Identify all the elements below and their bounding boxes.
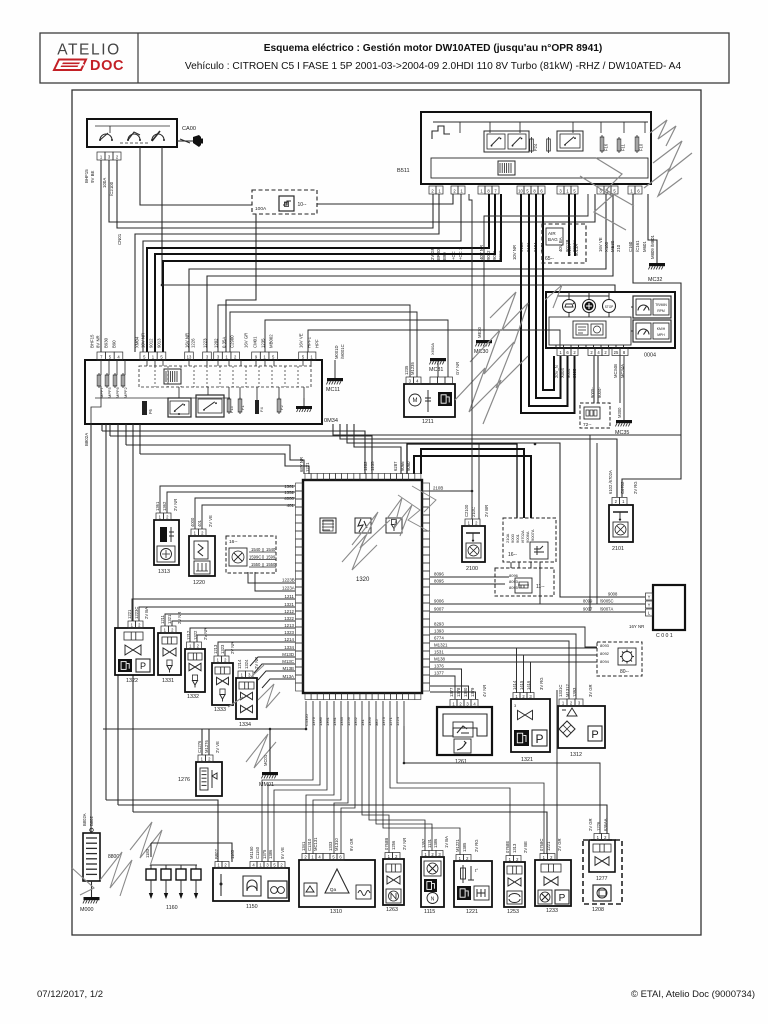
svg-text:9012: 9012 (149, 338, 154, 348)
svg-text:1416: 1416 (526, 680, 531, 690)
svg-text:ME30: ME30 (477, 326, 482, 338)
tachometer gauge (633, 296, 671, 318)
connector row 1310 (302, 854, 344, 861)
svg-text:F2: F2 (279, 405, 284, 410)
ECU bottom wire drops (304, 701, 400, 726)
ECU icon connector (320, 518, 336, 533)
svg-text:0004: 0004 (644, 353, 656, 359)
svg-text:1202: 1202 (363, 461, 368, 471)
svg-text:MC34B: MC34B (613, 364, 618, 378)
svg-text:F16: F16 (604, 143, 609, 151)
svg-text:1320: 1320 (356, 577, 370, 583)
svg-text:1312: 1312 (570, 752, 582, 758)
svg-text:8096: 8096 (434, 572, 444, 577)
fuel filter heater 1313 (154, 520, 179, 575)
maxi fuse MPF2 (121, 373, 128, 398)
svg-text:65--: 65-- (545, 256, 554, 262)
svg-text:4000: 4000 (190, 517, 195, 527)
svg-text:16V VE: 16V VE (598, 237, 603, 252)
svg-text:2V BR: 2V BR (484, 505, 489, 517)
turbo pressure solenoid 1233 (535, 860, 571, 914)
svg-text:1356: 1356 (367, 716, 372, 726)
svg-text:8V NR: 8V NR (96, 335, 101, 348)
connector 2100 (464, 504, 489, 526)
dashed box 80 gearbox (597, 642, 642, 676)
svg-text:ATELIO: ATELIO (57, 42, 121, 59)
svg-text:MC131: MC131 (313, 837, 318, 851)
relay R1 in B511 (484, 131, 529, 152)
wires 9006 9007 to C001 (430, 592, 645, 613)
oil pressure warning lamp (563, 300, 576, 313)
svg-text:MC32: MC32 (648, 277, 662, 283)
svg-text:2V NR: 2V NR (203, 628, 208, 640)
svg-text:1414: 1414 (512, 680, 517, 690)
svg-text:1221: 1221 (305, 462, 310, 472)
svg-text:1321: 1321 (167, 614, 172, 624)
svg-text:MPF6: MPF6 (115, 387, 120, 398)
wire labels below B511 (430, 237, 647, 260)
svg-text:1341: 1341 (301, 841, 306, 851)
svg-text:Esquema eléctrico : Gestión mo: Esquema eléctrico : Gestión motor DW10AT… (264, 43, 603, 54)
svg-text:100A: 100A (255, 206, 267, 212)
wires ECU to box 11 (430, 572, 509, 585)
svg-text:1211: 1211 (422, 419, 434, 425)
svg-text:XM04: XM04 (135, 336, 140, 348)
wire B930 bus (109, 160, 595, 222)
svg-text:10V NR: 10V NR (512, 245, 517, 260)
svg-text:1256: 1256 (346, 716, 351, 726)
relay R2 in B511 (557, 131, 583, 151)
svg-text:8093: 8093 (509, 579, 519, 584)
svg-text:10--: 10-- (298, 202, 307, 208)
wire 9012 heavy feed (147, 194, 489, 352)
svg-text:9006: 9006 (434, 599, 444, 604)
clutch pedal switch 1321 (511, 699, 550, 763)
svg-text:1331: 1331 (332, 716, 337, 726)
svg-text:2V BE: 2V BE (523, 841, 528, 853)
svg-text:1224: 1224 (395, 716, 400, 726)
svg-text:1599C: 1599C (249, 555, 261, 560)
svg-text:9007: 9007 (434, 607, 444, 612)
EGR solenoid 1263 (383, 859, 404, 913)
svg-text:1223A: 1223A (282, 586, 295, 591)
diagnostic warning lamp (583, 300, 596, 313)
svg-text:100A: 100A (102, 178, 107, 188)
wire 1276 feeds (202, 729, 209, 755)
svg-text:Qa: Qa (330, 887, 337, 893)
maxi fuse MPF7 (97, 373, 104, 398)
bus B802 to 1150 (106, 800, 218, 862)
wire riser to cooling box (198, 381, 200, 530)
ignition key symbol (177, 135, 203, 147)
accelerator pedal sensor 1261 (437, 707, 492, 765)
svg-text:C160: C160 (628, 241, 633, 252)
svg-text:BHF15: BHF15 (90, 334, 95, 348)
svg-text:1361: 1361 (284, 484, 294, 489)
svg-text:1214: 1214 (237, 659, 242, 669)
svg-text:2V NR: 2V NR (402, 838, 407, 850)
svg-text:72--: 72-- (583, 422, 592, 428)
svg-text:1261: 1261 (455, 759, 467, 765)
svg-text:1310: 1310 (330, 909, 342, 915)
svg-text:9V GR: 9V GR (349, 838, 354, 851)
svg-text:13: 13 (187, 354, 192, 359)
wire 0M34 to ECU 3 (126, 424, 304, 474)
connector 1313 (155, 499, 178, 520)
wire ECU to connector 16 medium (407, 444, 517, 518)
svg-text:210B: 210B (433, 486, 443, 491)
wire 1211 labels (404, 362, 460, 375)
svg-text:MPF5: MPF5 (107, 387, 112, 398)
ground MC35 (615, 407, 632, 436)
wire 6702A branch down (590, 435, 597, 611)
wire 1211 to MC31 (437, 361, 439, 377)
svg-text:16--: 16-- (508, 552, 517, 558)
pencil marks bottom left (72, 822, 162, 896)
svg-text:1323: 1323 (220, 644, 225, 654)
ground MC30 (474, 194, 588, 355)
svg-text:1321: 1321 (284, 602, 294, 607)
wire 2100 riser (466, 444, 468, 519)
wire M601 to ground (648, 194, 657, 263)
svg-text:1V BA: 1V BA (444, 836, 449, 848)
footer date (37, 989, 103, 1000)
svg-text:210: 210 (616, 244, 621, 252)
svg-text:07/12/2017, 1/2: 07/12/2017, 1/2 (37, 989, 103, 1000)
wire fuse output to 0M34 (226, 214, 256, 352)
svg-text:N: N (431, 897, 435, 903)
svg-text:/M001C: /M001C (340, 344, 345, 359)
svg-text:1223: 1223 (203, 338, 208, 348)
wires cooling box to ECU (248, 572, 295, 591)
wire fan 0M34 to 2101 A (333, 424, 681, 435)
svg-text:M809 /M801: M809 /M801 (650, 235, 655, 259)
svg-text:F10: F10 (639, 143, 644, 151)
bus to 1221 heater (92, 820, 468, 855)
fuse F11 (617, 137, 625, 153)
svg-text:t°: t° (475, 868, 478, 873)
wire MPF2 output down (132, 424, 134, 812)
svg-text:STOP: STOP (605, 305, 614, 309)
ground inside 0M34 (296, 398, 312, 412)
wire B511 to sensor 2100 (469, 194, 472, 491)
relay in 0M34 left (168, 398, 191, 417)
Atelio Doc logo (54, 42, 124, 75)
connector rows above 0M34 (97, 352, 316, 360)
ground MC31 (429, 343, 446, 373)
connector 1333 (213, 642, 235, 663)
pencil annotation on ECU (342, 486, 436, 570)
wire labels at ECU top (299, 457, 411, 472)
engine fuse box B511 (397, 112, 651, 184)
svg-text:C2100: C2100 (464, 504, 469, 517)
pre/post heating unit 1522 (115, 628, 154, 684)
wire BR20 feed (135, 194, 439, 352)
staircase wires to bottom row (262, 726, 544, 862)
svg-text:1271: 1271 (388, 716, 393, 726)
fuse F24 (530, 137, 538, 153)
bus to 1277 from ECU right (404, 690, 600, 860)
svg-text:1115: 1115 (424, 909, 435, 915)
svg-text:9013: 9013 (157, 338, 162, 348)
svg-text:9007A: 9007A (530, 529, 535, 541)
svg-text:1183: 1183 (230, 849, 235, 859)
wire 8293 to box 80 (430, 622, 597, 648)
svg-text:BHF15: BHF15 (84, 169, 89, 183)
svg-text:1321: 1321 (521, 757, 533, 763)
wire C160 to MC32 (622, 194, 681, 497)
schema title text (185, 43, 682, 72)
svg-text:DOC: DOC (90, 58, 124, 74)
contact block 0M34 (164, 369, 181, 384)
wire fan 0M34 to ECU pins (354, 424, 401, 474)
connector 1261 (449, 685, 487, 707)
wire 9011 heavy feed (155, 194, 495, 352)
wire 0M34 to ECU 1 (102, 424, 365, 474)
svg-text:Y: Y (648, 602, 651, 607)
cluster internal wiring (556, 292, 633, 348)
connector 1220 (190, 515, 213, 536)
connector 1253 (505, 841, 528, 863)
svg-text:BAG: BAG (548, 237, 558, 242)
svg-text:1386: 1386 (433, 838, 438, 848)
wire 1376 to 1261 (430, 664, 462, 700)
svg-text:385: 385 (374, 719, 379, 726)
svg-text:1211: 1211 (285, 594, 295, 599)
fuel heater relay 1276 (178, 762, 222, 796)
svg-text:P: P (535, 732, 543, 746)
wire ECU to connector 16 heavy B (414, 456, 531, 518)
svg-text:GY NR: GY NR (455, 362, 460, 375)
svg-text:B802: B802 (89, 816, 94, 826)
svg-text:20V_N: 20V_N (554, 365, 559, 378)
connector 1276 (197, 740, 220, 762)
svg-text:F6: F6 (148, 408, 153, 414)
svg-text:Y: Y (648, 594, 651, 599)
connector C2100 pins 1 3 2 (84, 152, 122, 245)
wire labels 1310 (301, 837, 354, 851)
svg-text:AIR: AIR (548, 231, 556, 236)
svg-text:1212: 1212 (284, 609, 294, 614)
connector 1331 (160, 612, 182, 633)
svg-text:M1312: M1312 (565, 684, 570, 697)
svg-text:2V GR: 2V GR (588, 818, 593, 831)
svg-text:1386: 1386 (268, 849, 273, 859)
wire 9181 heavy to cluster (529, 194, 568, 406)
svg-text:Vehículo : CITROEN C5 I FASE 1: Vehículo : CITROEN C5 I FASE 1 5P 2001-0… (185, 61, 682, 72)
svg-text:8293: 8293 (434, 622, 444, 627)
svg-text:C1320: C1320 (304, 713, 309, 726)
svg-text:2V BA: 2V BA (144, 607, 149, 619)
svg-text:1599: 1599 (266, 555, 276, 560)
title block frame (40, 33, 729, 83)
connector 1263 (384, 838, 407, 860)
svg-text:0.35A: 0.35A (222, 337, 227, 348)
fuse F6 (142, 401, 153, 415)
wire cluster MC34 to MC35 (620, 356, 624, 420)
svg-text:MPF2: MPF2 (123, 387, 128, 398)
wire 9013A heavy to airbag (574, 194, 576, 256)
wire B90 bus (117, 160, 433, 228)
svg-text:2V GR: 2V GR (557, 838, 562, 851)
svg-text:1540: 1540 (266, 547, 276, 552)
svg-text:F1: F1 (240, 405, 245, 410)
svg-text:1213: 1213 (213, 644, 218, 654)
svg-text:+CC: +CC (451, 251, 456, 260)
svg-text:1331: 1331 (162, 678, 174, 684)
svg-text:M13B: M13B (283, 666, 295, 671)
bus ECU bottom to left (103, 729, 306, 820)
svg-text:1276: 1276 (178, 777, 190, 783)
wire 0M34 to 1211 pin4 (230, 312, 417, 377)
svg-text:HPF1: HPF1 (307, 336, 312, 348)
wire 0M34 to 1211 pin5 (265, 320, 448, 377)
svg-text:M1221: M1221 (455, 839, 460, 852)
brake pedal switch 1312 (558, 706, 605, 758)
maxi fuse MPF5 (105, 373, 112, 398)
wire 9106 heavy to cluster (521, 194, 575, 413)
svg-text:1333: 1333 (339, 716, 344, 726)
engine fuse box 0M34 (85, 360, 338, 424)
instrument cluster 0004 (546, 292, 675, 359)
svg-text:C1150: C1150 (255, 846, 260, 859)
svg-text:1233: 1233 (546, 908, 558, 914)
wire ME30 bus (207, 194, 613, 352)
svg-text:MPF7: MPF7 (99, 387, 104, 398)
diagnostic connector C001 (629, 585, 685, 639)
svg-text:CA00: CA00 (182, 126, 196, 132)
dashed diag connector 72 (580, 403, 610, 428)
svg-text:1183: 1183 (145, 848, 150, 858)
connector row B511 (429, 186, 642, 194)
svg-text:C1310: C1310 (307, 838, 312, 851)
svg-text:1352: 1352 (353, 716, 358, 726)
svg-text:1385: 1385 (462, 842, 467, 852)
svg-text:B802A: B802A (82, 813, 87, 826)
svg-text:4V NR: 4V NR (482, 685, 487, 697)
svg-text:1550: 1550 (266, 562, 276, 567)
connector 1522 (127, 607, 149, 628)
svg-text:0M34: 0M34 (324, 418, 338, 424)
wire 1276 drop (201, 729, 203, 755)
svg-text:16Y NR: 16Y NR (629, 624, 644, 629)
svg-text:1211: 1211 (160, 614, 165, 624)
svg-text:1531: 1531 (434, 650, 444, 655)
svg-text:1333: 1333 (328, 841, 333, 851)
wire 1377 to 1261 (430, 671, 455, 700)
fuse F16 (600, 135, 608, 153)
svg-text:16--: 16-- (229, 539, 238, 545)
svg-text:1226: 1226 (191, 338, 196, 348)
svg-text:1235: 1235 (404, 365, 409, 375)
wire 1393 to 1312 (430, 629, 576, 700)
svg-text:1313: 1313 (512, 843, 517, 853)
svg-text:1393: 1393 (434, 629, 444, 634)
svg-text:/C161: /C161 (635, 240, 640, 252)
svg-text:1322: 1322 (126, 678, 138, 684)
svg-text:1361: 1361 (155, 501, 160, 511)
svg-text:3V RG: 3V RG (539, 677, 544, 690)
wire MPF5 output down (105, 424, 107, 800)
wire M138 to box 80 and 1321 (430, 657, 597, 694)
svg-text:M1321: M1321 (434, 643, 448, 648)
svg-text:C 0 0 1: C 0 0 1 (656, 633, 673, 639)
ground M000 (80, 813, 100, 913)
svg-text:MB002: MB002 (269, 334, 274, 348)
svg-text:2V RG: 2V RG (633, 481, 638, 494)
svg-text:1373: 1373 (381, 716, 386, 726)
svg-text:11--: 11-- (536, 584, 545, 590)
preheat relay unit 1150 (213, 868, 289, 910)
ECU left pin column (296, 483, 304, 691)
injector 1332 (185, 649, 205, 700)
svg-text:1324: 1324 (244, 659, 249, 669)
svg-text:2V RG: 2V RG (474, 839, 479, 852)
svg-text:1221: 1221 (466, 909, 478, 915)
svg-text:1131: 1131 (427, 838, 432, 848)
svg-text:10V NR: 10V NR (141, 333, 146, 348)
wire labels 1150 (214, 846, 285, 859)
svg-text:F15: F15 (229, 405, 234, 413)
svg-text:6774: 6774 (434, 636, 444, 641)
connector 1321 (512, 677, 544, 699)
svg-text:RPM: RPM (657, 309, 665, 313)
svg-text:1277: 1277 (596, 876, 608, 882)
svg-text:9007: 9007 (583, 607, 593, 612)
display module in cluster (573, 321, 606, 338)
wire fan 0M34 to C001 (347, 424, 645, 597)
svg-text:1332: 1332 (187, 694, 199, 700)
svg-text:1323: 1323 (284, 630, 294, 635)
svg-text:1375: 1375 (262, 849, 267, 859)
wire 9104 heavy to cluster (536, 194, 561, 398)
wire 0M34 to ECU 4 (140, 424, 309, 474)
connector 1332 (186, 628, 208, 649)
wire fuse 10A to B511 (317, 194, 453, 204)
svg-text:CM01: CM01 (253, 336, 258, 348)
svg-text:0768B: 0768B (384, 838, 389, 850)
svg-text:8093: 8093 (600, 643, 610, 648)
svg-text:MC31: MC31 (429, 367, 443, 373)
connector rows 0004 (557, 348, 628, 356)
svg-text:8095: 8095 (434, 579, 444, 584)
connector 2101 (608, 470, 638, 504)
STOP warning lamp (603, 300, 616, 313)
svg-text:M601: M601 (642, 241, 647, 252)
riser 1253 feed (512, 812, 514, 856)
svg-text:B511: B511 (397, 168, 410, 174)
svg-text:1377: 1377 (434, 671, 444, 676)
injector 1334 (236, 678, 257, 728)
ECU right pin column (422, 483, 430, 691)
ground MC32 (648, 235, 665, 283)
internal contact block B511 (498, 161, 515, 175)
svg-text:2V VE: 2V VE (208, 515, 213, 527)
wire BHF15 feed (100, 160, 102, 352)
wire 9204 heavy to cluster (543, 194, 554, 390)
0M34 internal wiring (91, 360, 311, 424)
svg-text:/9005C: /9005C (600, 599, 614, 604)
svg-text:ME30: ME30 (610, 240, 615, 252)
svg-text:1333: 1333 (214, 707, 226, 713)
svg-text:1221: 1221 (127, 609, 132, 619)
wires 1380 1379 to ECU (430, 686, 476, 699)
ground MM01 (259, 729, 278, 788)
junction dots (161, 284, 537, 765)
svg-text:401: 401 (287, 503, 295, 508)
svg-text:1362: 1362 (162, 501, 167, 511)
fuse F4 (255, 400, 264, 414)
